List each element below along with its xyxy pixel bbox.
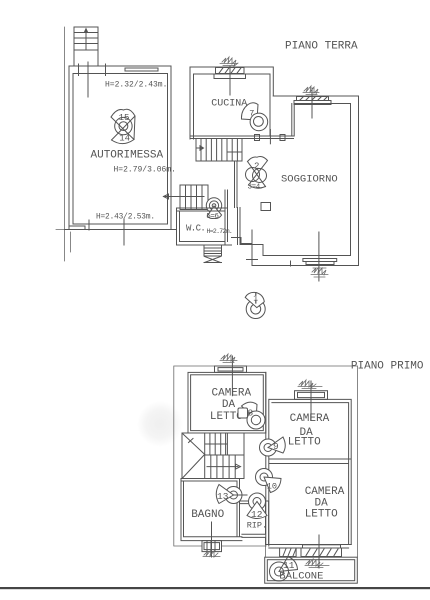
cucina walls bbox=[190, 67, 294, 139]
marker 15-14 in garage bbox=[111, 109, 135, 143]
marker 8 bbox=[238, 402, 265, 429]
svg-text:H=2.32/2.43m.: H=2.32/2.43m. bbox=[105, 81, 167, 90]
bedroom2 walls bbox=[269, 399, 351, 544]
svg-text:W.C.: W.C. bbox=[186, 224, 205, 234]
rip walls bbox=[240, 501, 269, 545]
bedroom1 window box bbox=[215, 356, 247, 396]
svg-text:15: 15 bbox=[119, 113, 130, 123]
soggiorno inner walls bbox=[238, 104, 351, 256]
svg-text:RIP.: RIP. bbox=[247, 521, 267, 531]
svg-text:DA: DA bbox=[222, 399, 236, 411]
balcony door hatch bbox=[280, 548, 297, 557]
svg-text:1: 1 bbox=[253, 295, 258, 304]
svg-text:H=2.72m.: H=2.72m. bbox=[207, 228, 233, 235]
window scribble above cucina bbox=[220, 57, 238, 66]
cucina top window bbox=[214, 66, 246, 95]
stairs (first floor) bbox=[182, 433, 244, 479]
marker 12 bbox=[247, 493, 267, 519]
svg-text:AUTORIMESSA: AUTORIMESSA bbox=[91, 150, 164, 162]
marker 11 bbox=[270, 557, 298, 582]
wc walls bbox=[177, 190, 232, 245]
scribble above soggiorno window bbox=[303, 86, 319, 95]
wall between hall and soggiorno bbox=[235, 161, 238, 208]
scribble below soggiorno bottom window bbox=[311, 267, 328, 277]
svg-text:CUCINA: CUCINA bbox=[211, 99, 247, 110]
svg-text:2: 2 bbox=[254, 162, 259, 172]
PLAN 2 : PIANO PRIMO bbox=[174, 354, 424, 583]
svg-text:10: 10 bbox=[267, 482, 277, 492]
bagno walls bbox=[181, 479, 242, 541]
scribble below bagno window bbox=[203, 550, 220, 557]
svg-text:5=6: 5=6 bbox=[206, 213, 219, 221]
svg-text:12: 12 bbox=[251, 509, 263, 520]
marker 2 / 3=4 bbox=[246, 156, 268, 188]
svg-text:SOGGIORNO: SOGGIORNO bbox=[281, 174, 338, 186]
balcone walls bbox=[265, 557, 358, 583]
svg-text:8: 8 bbox=[248, 408, 254, 419]
svg-text:BAGNO: BAGNO bbox=[191, 509, 224, 521]
watermark blob bbox=[137, 401, 183, 447]
scribble in balcone bbox=[305, 559, 329, 568]
marker 1 below plan bbox=[245, 292, 265, 318]
wc bottom window bbox=[204, 245, 222, 263]
svg-text:LETTO: LETTO bbox=[288, 437, 321, 449]
scribble above bedroom1 window bbox=[220, 354, 237, 363]
svg-text:H=2.43/2.53m.: H=2.43/2.53m. bbox=[96, 214, 155, 222]
boundary line left bbox=[56, 27, 71, 261]
marker 9 bbox=[260, 437, 286, 456]
soggiorno bottom window bbox=[291, 232, 337, 281]
scribble above bedroom2 window bbox=[298, 380, 322, 389]
bedroom1 walls bbox=[188, 372, 266, 433]
bedroom3 bottom window bbox=[301, 535, 342, 568]
passage posts cucina-soggiorno bbox=[255, 135, 260, 141]
marker 7 bbox=[241, 103, 267, 131]
hall stairs bbox=[164, 185, 209, 210]
svg-text:CAMERA: CAMERA bbox=[212, 388, 252, 400]
marker 5=6 bullseye bbox=[206, 198, 221, 219]
soggiorno outer walls bbox=[232, 96, 359, 266]
marker 10 bbox=[256, 469, 282, 493]
bottom rule bbox=[0, 587, 430, 589]
garage door band bbox=[125, 68, 158, 71]
tick at cucina right wall bbox=[269, 130, 271, 144]
svg-text:CAMERA: CAMERA bbox=[290, 413, 330, 425]
svg-text:BALCONE: BALCONE bbox=[279, 571, 323, 583]
garage walls (autorimessa) bbox=[69, 64, 171, 245]
stairs below cucina bbox=[196, 139, 242, 162]
ground line under garage bbox=[65, 229, 177, 231]
svg-text:LETTO: LETTO bbox=[305, 509, 338, 521]
svg-text:PIANO PRIMO: PIANO PRIMO bbox=[351, 361, 424, 373]
svg-text:7: 7 bbox=[249, 109, 254, 119]
svg-text:CAMERA: CAMERA bbox=[305, 486, 345, 498]
bedroom3 bottom wall bbox=[266, 537, 352, 548]
svg-text:3=4: 3=4 bbox=[248, 184, 261, 192]
hall wall vertical bbox=[266, 372, 269, 546]
bedroom2 window box bbox=[295, 381, 328, 420]
pillar square soggiorno bbox=[261, 203, 271, 211]
svg-text:13: 13 bbox=[217, 491, 229, 502]
bagno bottom window bbox=[202, 522, 222, 557]
svg-text:H=2.79/3.06m.: H=2.79/3.06m. bbox=[114, 166, 176, 175]
outer boundary line bbox=[174, 366, 358, 557]
marker 13 bbox=[216, 485, 247, 504]
svg-text:9: 9 bbox=[273, 441, 279, 452]
PLAN 1 : PIANO TERRA bbox=[56, 27, 359, 319]
svg-text:PIANO TERRA: PIANO TERRA bbox=[285, 41, 358, 53]
external stair top-left bbox=[74, 27, 98, 97]
svg-text:14: 14 bbox=[119, 134, 130, 144]
soggiorno top window bbox=[294, 88, 331, 118]
svg-text:11: 11 bbox=[283, 560, 295, 571]
